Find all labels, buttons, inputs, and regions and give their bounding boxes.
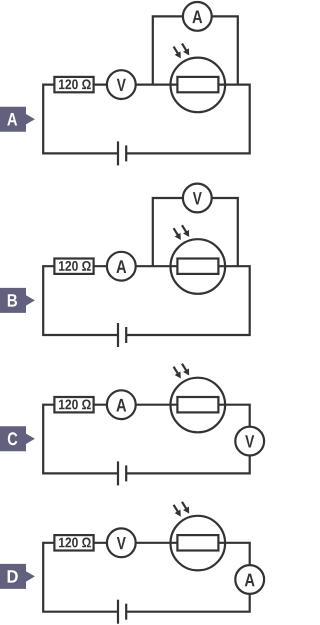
cell (circuit A): [118, 141, 126, 165]
cell (circuit D): [118, 600, 126, 624]
LDR (circuit D) light arrows: [174, 502, 190, 517]
option label C: [0, 426, 35, 451]
wire: main loop circuit B: [43, 266, 250, 335]
option label A: [0, 107, 35, 132]
wire: parallel meter loop circuit B: [153, 198, 238, 266]
wire: main loop circuit A: [43, 85, 250, 154]
LDR (circuit D): [171, 516, 226, 571]
resistor 120 ohm (circuit A): [54, 77, 93, 92]
ammeter A in right branch (circuit D): [235, 565, 264, 594]
LDR (circuit B): [171, 239, 226, 294]
LDR (circuit A) light arrows: [174, 44, 190, 59]
LDR (circuit B) light arrows: [174, 225, 190, 240]
voltmeter V in right branch (circuit C): [235, 427, 264, 456]
resistor 120 ohm (circuit C): [54, 397, 93, 412]
wire: parallel meter loop circuit A: [153, 16, 238, 84]
option label D: [0, 564, 35, 589]
LDR (circuit C): [171, 378, 226, 433]
cell (circuit B): [118, 323, 126, 347]
voltmeter V in series (circuit D): [107, 528, 136, 557]
ammeter A in series (circuit C): [107, 390, 136, 419]
resistor 120 ohm (circuit B): [54, 259, 93, 274]
LDR (circuit A): [171, 58, 226, 113]
wire: main loop circuit C: [43, 405, 250, 474]
resistor 120 ohm (circuit D): [54, 535, 93, 550]
voltmeter V in parallel loop (circuit B): [183, 184, 212, 213]
voltmeter V in series (circuit A): [107, 70, 136, 99]
wire: main loop circuit D: [43, 543, 250, 612]
ammeter A in parallel loop (circuit A): [183, 2, 212, 31]
cell (circuit C): [118, 461, 126, 485]
ammeter A in series (circuit B): [107, 252, 136, 281]
LDR (circuit C) light arrows: [174, 364, 190, 379]
option label B: [0, 288, 35, 313]
